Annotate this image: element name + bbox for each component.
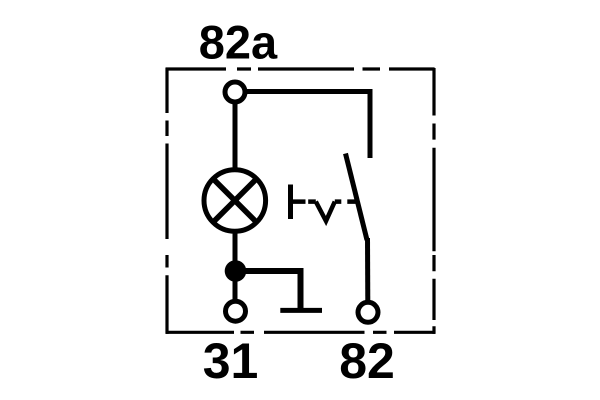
actuator dashed link with V [291,199,357,204]
svg-text:31: 31 [203,333,259,389]
lamp L1 [204,170,266,232]
wire: lamp to terminal 31 [233,233,238,302]
actuator anchor bar [288,185,293,220]
wire: terminal 82a right then down to fixed contact [246,92,370,159]
wire: blade to terminal 82 [365,238,370,302]
wire: junction to chassis [236,271,301,310]
chassis bar [280,308,322,313]
relay housing dashed box: right edge [432,68,435,334]
terminal 31 [226,301,246,321]
wire: terminal 82a to lamp [233,104,238,171]
terminal 82a [225,82,245,102]
relay housing dashed box: top edge [166,67,435,70]
actuator V [316,202,335,221]
terminal 82 [358,302,378,322]
svg-text:82a: 82a [199,16,278,69]
relay housing dashed box: bottom edge [166,331,435,334]
switch blade S1 [346,154,368,241]
relay housing dashed box: left edge [165,68,168,334]
svg-text:82: 82 [339,333,395,389]
junction node [225,260,247,282]
